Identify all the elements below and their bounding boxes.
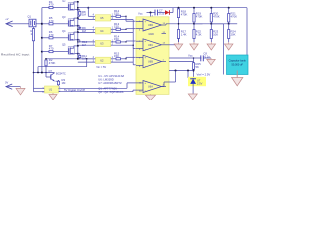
junction gate bus row 3 [41, 37, 43, 39]
wire opto chain to U6C input [133, 45, 137, 49]
wire opto U3 pin3 [78, 43, 96, 46]
wire lower bus to Q7 collector [33, 72, 55, 74]
wire opto U2 pin4 [77, 56, 95, 59]
wire opto U3 pin2 drop [132, 45, 134, 62]
wire source node row 2 [77, 25, 79, 27]
wire output drop to logic [37, 59, 87, 74]
resistor R5 470 (gate resistor row 2) [48, 16, 54, 25]
wire tap stub R19 [194, 23, 203, 25]
svg-text:Vcc: Vcc [188, 54, 193, 58]
resistor R25 5K [192, 62, 201, 71]
wire gate row 4 [42, 51, 48, 53]
svg-text:Q5: Q5 [62, 43, 66, 47]
diode D2 (red) [165, 10, 169, 15]
resistor R2 470K (gate bleed) [45, 58, 56, 73]
wire row1 to U6D input [135, 16, 137, 18]
caption 5V digital on/off [64, 88, 85, 92]
svg-text:U1 - U5: APV1121SZ: U1 - U5: APV1121SZ [98, 74, 124, 78]
wire opto U4 pin2 [111, 30, 133, 33]
shunt reference U7 (highlight) [188, 77, 206, 86]
wire opto U5 pin2 [111, 17, 133, 20]
svg-text:U7: ADR366-BRTZ: U7: ADR366-BRTZ [98, 81, 122, 85]
ground below U6 [146, 94, 156, 100]
resistor R13 150 (LED series row 2) [114, 22, 122, 31]
ground right of C8 [207, 58, 216, 65]
svg-text:470K: 470K [213, 14, 220, 18]
ground below U1 [49, 93, 57, 100]
wire gate resistor to Q3 [54, 23, 66, 25]
junction rail / R18 [178, 7, 180, 9]
resistor R14 150 (LED series row 3) [114, 35, 122, 44]
wire U6D output to divider taps [166, 24, 229, 25]
op-amp U6A (comparator section) [136, 81, 166, 93]
svg-text:470: 470 [49, 33, 54, 37]
wire Vref drop to U7 [188, 71, 193, 78]
wire Vref bus [169, 70, 194, 72]
wire R21 to tap [228, 23, 230, 25]
svg-text:470: 470 [49, 3, 54, 7]
wire gate resistor to Q2 [54, 7, 66, 9]
net label Vref [197, 72, 211, 76]
svg-text:GND: GND [149, 33, 155, 36]
ground below U7 [188, 94, 197, 100]
wire opto U5 pin2 drop [132, 20, 134, 33]
svg-text:U6: LM339D: U6: LM339D [98, 78, 113, 82]
svg-text:Q4: Q4 [62, 29, 66, 33]
wire opto U3 pin1 [111, 39, 115, 42]
resistor R8 1M (balance resistor row 1) [78, 10, 87, 17]
wire R19 to tap [193, 23, 195, 25]
svg-text:U6D: U6D [148, 24, 153, 27]
op-amp U6C (comparator section) [136, 39, 166, 51]
wire +V to Q1 [14, 23, 28, 25]
svg-text:3: 3 [42, 91, 44, 94]
wire source node row 1 [77, 9, 79, 11]
resistor R7 470 (gate resistor row 4) [48, 44, 54, 53]
ground below R22 [190, 42, 199, 50]
svg-text:470K: 470K [49, 61, 56, 65]
op-amp U6D (comparator section) [136, 19, 166, 31]
wire opto U2 pin2 [111, 60, 133, 63]
resistor R2 1M (base pulldown) [56, 78, 67, 86]
svg-text:1.4K: 1.4K [181, 32, 187, 36]
port 0V [5, 81, 21, 90]
wire stack chain row 1 [77, 2, 79, 18]
junction rail / R20 [210, 7, 212, 9]
transistor Q5 [62, 43, 77, 55]
junction gate bus / Q1 drain [41, 23, 43, 25]
svg-text:5K: 5K [196, 65, 200, 69]
wire stack bottom output [46, 58, 95, 60]
resistor R19 470K [193, 8, 203, 24]
net label Vcc (comparator supply) [138, 12, 143, 16]
svg-text:Q1: Q1 [28, 15, 32, 19]
svg-text:470: 470 [49, 19, 54, 23]
resistor R24 20K [228, 24, 236, 42]
wire gate resistor to Q5 [54, 51, 66, 53]
wire R20 to tap [210, 23, 212, 25]
wire gate row 2 [42, 23, 48, 25]
svg-text:10K: 10K [213, 32, 218, 36]
wire gate bus vertical [41, 8, 43, 73]
ground arrow below capacitor bank [232, 71, 243, 86]
junction rail / R21 [228, 7, 230, 9]
shunt reference U7 ADR366 [190, 78, 202, 88]
wire U7 to ground [192, 88, 194, 94]
wire Vcc node down [190, 57, 197, 61]
wire opto U3 pin1 to comparator [122, 41, 137, 43]
svg-text:Vcc: Vcc [138, 12, 143, 16]
svg-text:U6C: U6C [148, 44, 153, 47]
svg-text:U6B: U6B [148, 61, 153, 64]
wire stack chain row 4 [77, 46, 79, 59]
capacitor bank note [227, 55, 249, 75]
wire rail down right edge to capacitor bank [246, 8, 248, 55]
svg-text:Rectified AC input: Rectified AC input [1, 52, 30, 56]
svg-text:470K: 470K [181, 13, 188, 17]
ground at 0V port [16, 87, 25, 95]
svg-text:BC547C: BC547C [56, 72, 66, 76]
op-amp U6B (comparator section) [136, 55, 166, 68]
wire opto U3 pin4 [77, 39, 95, 42]
svg-text:Vref = 2.5V: Vref = 2.5V [197, 72, 211, 76]
wire opto U2 pin3 [78, 60, 96, 63]
caption rectified AC input [1, 52, 30, 56]
wire opto U3 pin2 [111, 43, 133, 46]
resistor R20 470K [210, 8, 220, 24]
transistor Q3 [62, 15, 77, 27]
wire source node row 4 [77, 53, 79, 55]
svg-text:Q2 - Q6: FQP30N06: Q2 - Q6: FQP30N06 [98, 90, 124, 94]
wire Q7 base from R2 [46, 73, 51, 78]
wire opto U4 pin4 [77, 27, 95, 30]
wire U6B output to Vcc node [169, 57, 190, 59]
junction gate bus row 4 [41, 51, 43, 53]
svg-text:470K: 470K [231, 14, 238, 18]
resistor R9 1M (balance resistor row 2) [78, 26, 87, 33]
wire opto U2 pin2 to U6B [133, 62, 136, 65]
wire U6A output exit [162, 82, 167, 87]
wire +V rail (stack top to right edge) [77, 7, 247, 9]
op-amp U6 package (LM339 quad comparator) [136, 17, 169, 95]
svg-text:U5: U5 [100, 16, 104, 20]
wire source node row 3 [77, 39, 79, 41]
wire stack chain row 2 [77, 18, 79, 32]
svg-text:0V: 0V [5, 81, 8, 85]
svg-text:1M: 1M [62, 81, 67, 85]
wire drain node row 3 [77, 31, 79, 33]
pin 12 GND label of U6 [149, 32, 167, 36]
wire opto U4 pin3 [78, 30, 96, 33]
ground below R23 [207, 42, 216, 50]
wire drain node row 2 [77, 17, 79, 19]
optocoupler U3 [95, 40, 110, 46]
wire drain node row 4 [77, 45, 79, 47]
svg-text:U1: U1 [49, 88, 53, 92]
wire opto U4 pin1 [111, 27, 115, 30]
svg-text:Q2: Q2 [62, 0, 66, 3]
wire Vcc segment [147, 12, 156, 14]
wire tap stub R20 [211, 23, 220, 25]
wire U1 pin2 to U6A [59, 89, 137, 92]
wire gate row 3 [42, 37, 48, 39]
wire gate row 1 [42, 7, 48, 9]
resistor R11 1M (balance resistor row 4) [78, 54, 88, 61]
svg-text:50,000 uF: 50,000 uF [231, 63, 243, 67]
wire opto U5 pin1 [111, 14, 115, 17]
wire R1 down to lower bus [33, 42, 35, 73]
resistor R21 470K [228, 8, 238, 24]
wire opto U5 pin4 [87, 7, 95, 17]
svg-text:Q1: APT77N06: Q1: APT77N06 [98, 87, 117, 91]
resistor R23 10K [210, 24, 218, 42]
svg-text:5V Digital On/Off: 5V Digital On/Off [64, 88, 85, 92]
ground below R24 [224, 42, 233, 50]
svg-text:470K: 470K [196, 14, 203, 18]
optocoupler U2 [95, 57, 110, 63]
svg-text:2.5V: 2.5V [197, 81, 203, 85]
svg-text:U6A: U6A [148, 86, 153, 89]
wire to capacitor bank plus [220, 24, 224, 75]
svg-text:4: 4 [42, 87, 44, 90]
wire R17 to ground [178, 38, 180, 42]
svg-text:Capacitor bank: Capacitor bank [229, 59, 247, 63]
svg-text:+V: +V [5, 17, 9, 21]
resistor R18 4.7K [177, 8, 187, 19]
svg-text:Q3: Q3 [62, 15, 66, 19]
wire gate resistor to Q4 [54, 37, 66, 39]
optocoupler U1 [42, 86, 58, 94]
junction gate bus row 2 [41, 23, 43, 25]
transistor Q7 BC547C [49, 70, 66, 81]
capacitor C7 0.1u [155, 9, 165, 16]
caption Vin = 5V [96, 65, 106, 69]
optocoupler U4 [95, 28, 110, 34]
junction rail / R19 [193, 7, 195, 9]
transistor Q1 [27, 15, 42, 27]
resistor R10 1M (balance resistor row 3) [78, 40, 88, 47]
caption parts list [98, 74, 124, 94]
resistor R6 470 (gate resistor row 3) [48, 30, 54, 39]
wire U6B input to R25 top [169, 61, 194, 63]
optocoupler U5 [95, 15, 110, 21]
svg-text:1M: 1M [82, 13, 87, 17]
resistor R22 4.3K [193, 24, 202, 42]
wire Vref drop to U6A jog [167, 71, 176, 83]
svg-text:4.3K: 4.3K [196, 32, 202, 36]
ground below R17 [174, 42, 183, 50]
resistor R15 150 (LED series row 4) [114, 51, 122, 60]
wire 0V bus down [34, 73, 45, 92]
wire opto U5 pin3 [78, 17, 96, 20]
svg-text:Vin = 5V: Vin = 5V [96, 65, 106, 69]
wire tap stub R21 [229, 23, 238, 25]
wire opto U2 pin1 to comparator [122, 57, 137, 59]
wire opto U2 pin1 [111, 56, 115, 59]
wire opto U4 pin1 to comparator [122, 29, 137, 30]
wire comparator power pin 3 [151, 13, 154, 18]
svg-text:20K: 20K [231, 32, 236, 36]
wire opto U4 pin2 drop [132, 33, 134, 46]
wire Vcc to C8 [197, 57, 202, 59]
resistor R1 1M (below Q1) [31, 27, 36, 42]
svg-text:U4: U4 [100, 29, 104, 33]
wire C7 to D1 [158, 12, 165, 14]
resistor R17 1.4K [177, 28, 186, 42]
wire U6C output node [166, 44, 179, 46]
resistor R12 150 (LED series row 1) [114, 9, 122, 18]
svg-text:U2: U2 [100, 59, 104, 63]
wire R18 to R17 [178, 19, 180, 28]
wire U1 pin1 to U6A [59, 83, 137, 89]
wire stack chain row 3 [77, 32, 79, 46]
svg-text:470: 470 [49, 47, 54, 51]
wire drain node row 1 [77, 1, 79, 3]
transistor Q2 [62, 0, 77, 11]
capacitor C8 0.1u [201, 52, 211, 62]
wire opto U5 pin1 to comparator [122, 16, 137, 22]
transistor Q4 [62, 29, 77, 41]
port +V (rectified AC input, positive) [5, 17, 13, 27]
wire R25 to Vref node [193, 70, 195, 78]
svg-text:1M: 1M [82, 43, 87, 47]
svg-text:U3: U3 [100, 42, 104, 46]
wire D1 to rail [169, 8, 173, 13]
net label Vcc (reference supply) [188, 54, 193, 58]
resistor R4 470 (gate resistor row 1) [48, 0, 54, 9]
